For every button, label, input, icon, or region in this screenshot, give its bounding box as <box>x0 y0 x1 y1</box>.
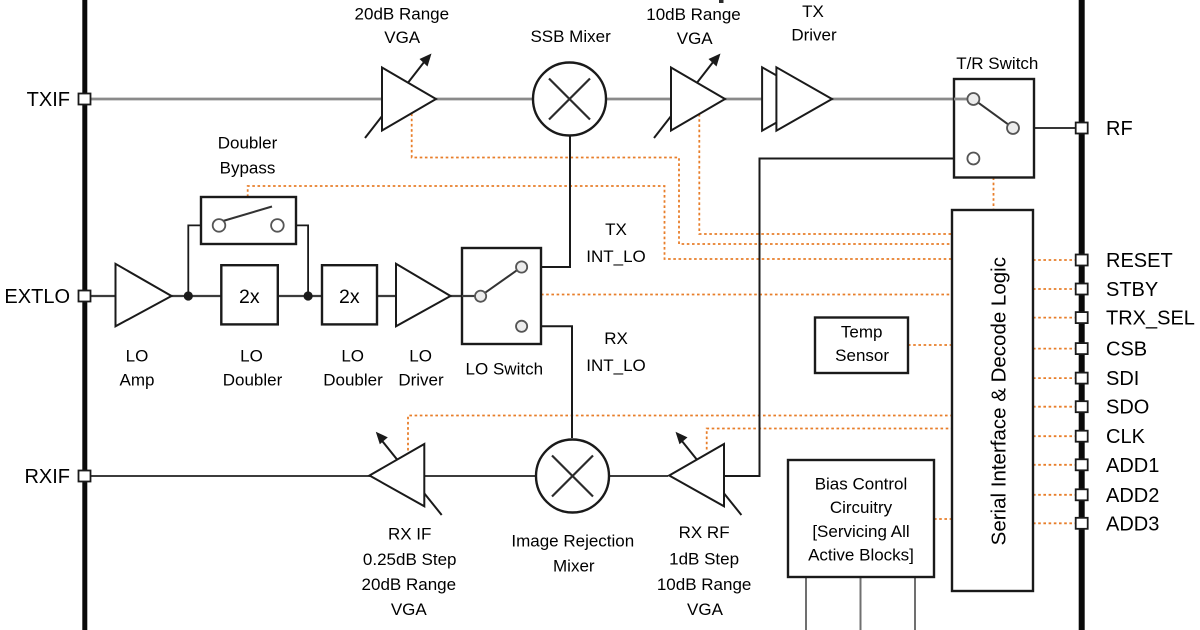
wire: TX INT_LO path <box>527 136 570 268</box>
wire: serial box to ADD2 pin <box>1033 494 1076 496</box>
svg-text:10dB Range: 10dB Range <box>646 5 741 24</box>
svg-text:VGA: VGA <box>391 600 428 619</box>
pin CLK <box>1076 431 1088 442</box>
wire: serial box to CLK pin <box>1033 435 1076 437</box>
wire: serial box to CSB pin <box>1033 348 1076 350</box>
svg-text:VGA: VGA <box>687 600 724 619</box>
svg-text:Bias Control: Bias Control <box>815 474 908 493</box>
amplifier TX 10dB Range VGA <box>654 54 725 139</box>
block LO Doubler 1 (2x) <box>221 265 277 324</box>
svg-text:SDI: SDI <box>1106 368 1139 390</box>
svg-text:INT_LO: INT_LO <box>586 356 646 375</box>
wire: bias supply line 3 <box>914 577 916 630</box>
pin SDI <box>1076 373 1088 384</box>
wire: 20dB VGA gain control <box>412 114 953 245</box>
amplifier RX RF VGA (points left) <box>669 432 741 515</box>
svg-text:SDO: SDO <box>1106 397 1149 419</box>
svg-text:LO: LO <box>341 347 364 366</box>
mixer Image Rejection Mixer <box>536 440 609 513</box>
wire: RX INT_LO path <box>527 326 572 438</box>
pin TRX_SEL <box>1076 312 1088 323</box>
wire: serial box to TRX_SEL pin <box>1033 317 1076 319</box>
wire: serial box to ADD1 pin <box>1033 464 1076 466</box>
svg-text:Image Rejection: Image Rejection <box>511 532 634 551</box>
wire: serial box to STBY pin <box>1033 288 1076 290</box>
svg-text:CLK: CLK <box>1106 426 1146 448</box>
svg-text:Doubler: Doubler <box>323 370 383 389</box>
svg-text:Temp: Temp <box>841 323 883 342</box>
block Serial Interface & Decode Logic <box>952 210 1033 591</box>
svg-text:CSB: CSB <box>1106 339 1147 361</box>
label partial glyph top <box>719 0 724 3</box>
svg-text:LO Switch: LO Switch <box>466 360 543 379</box>
pin SDO <box>1076 401 1088 412</box>
svg-text:TX: TX <box>605 220 627 239</box>
svg-text:RX RF: RX RF <box>679 523 730 542</box>
wire: doubler bypass left leg <box>188 225 212 296</box>
switch T/R Switch <box>954 79 1034 178</box>
svg-text:Driver: Driver <box>791 25 837 44</box>
orange control dashed lines <box>248 114 1076 524</box>
wire: RXIF signal path <box>87 475 536 477</box>
svg-text:RF: RF <box>1106 118 1133 140</box>
svg-text:Serial Interface & Decode Logi: Serial Interface & Decode Logic <box>988 257 1011 545</box>
block Temp Sensor <box>815 318 908 374</box>
svg-text:TX: TX <box>802 2 824 21</box>
amplifier TX 20dB Range VGA <box>365 54 436 139</box>
svg-text:ADD1: ADD1 <box>1106 455 1159 477</box>
svg-text:VGA: VGA <box>677 29 714 48</box>
pin ADD3 <box>1076 518 1088 529</box>
pin TXIF <box>79 94 91 105</box>
chip right border <box>1079 0 1085 630</box>
pin ADD2 <box>1076 489 1088 500</box>
svg-text:RXIF: RXIF <box>24 466 70 488</box>
svg-text:[Servicing All: [Servicing All <box>812 522 909 541</box>
svg-text:LO: LO <box>240 347 263 366</box>
svg-text:TRX_SEL: TRX_SEL <box>1106 308 1195 330</box>
amplifier LO Driver <box>396 264 451 327</box>
wire: 10dB VGA gain control <box>699 114 953 234</box>
svg-text:Bypass: Bypass <box>220 159 276 178</box>
svg-text:ADD2: ADD2 <box>1106 485 1159 507</box>
mixer SSB Mixer <box>533 63 606 136</box>
block Bias Control Circuitry <box>788 460 934 577</box>
svg-text:VGA: VGA <box>384 28 421 47</box>
svg-text:Circuitry: Circuitry <box>830 498 893 517</box>
svg-text:Sensor: Sensor <box>835 346 889 365</box>
svg-text:2x: 2x <box>239 286 260 308</box>
wire: doubler bypass control <box>248 186 953 259</box>
svg-text:TXIF: TXIF <box>27 89 70 111</box>
wire: LO switch control <box>541 294 953 296</box>
svg-text:RX IF: RX IF <box>388 525 431 544</box>
svg-text:Driver: Driver <box>398 370 444 389</box>
switch Doubler Bypass <box>201 197 296 244</box>
svg-text:2x: 2x <box>339 286 360 308</box>
svg-text:Mixer: Mixer <box>553 557 595 576</box>
svg-text:SSB Mixer: SSB Mixer <box>530 27 611 46</box>
svg-text:0.25dB Step: 0.25dB Step <box>363 550 457 569</box>
svg-text:EXTLO: EXTLO <box>4 286 70 308</box>
block LO Doubler 2 (2x) <box>322 265 377 324</box>
wire: serial box to ADD3 pin <box>1033 522 1076 524</box>
svg-text:INT_LO: INT_LO <box>586 247 646 266</box>
pin RF <box>1076 123 1088 134</box>
chip left border <box>82 0 87 630</box>
wire: TXIF signal path <box>87 98 533 101</box>
svg-text:20dB Range: 20dB Range <box>362 575 457 594</box>
svg-text:RESET: RESET <box>1106 250 1173 272</box>
svg-text:Doubler: Doubler <box>218 134 278 153</box>
pin RESET <box>1076 255 1088 266</box>
svg-text:1dB Step: 1dB Step <box>669 550 739 569</box>
wire: bias supply line 2 <box>860 577 862 630</box>
wire: RF output <box>1019 127 1079 129</box>
amplifier RX IF VGA (points left) <box>370 432 442 515</box>
svg-text:LO: LO <box>409 347 432 366</box>
node junction 1 <box>184 291 193 300</box>
wire: temp sensor link <box>908 344 953 346</box>
wire: bias control link <box>934 518 953 520</box>
wire: bias supply line 1 <box>805 577 807 630</box>
pin STBY <box>1076 284 1088 295</box>
node junction 2 <box>304 291 313 300</box>
wire: serial box to RESET pin <box>1033 259 1076 261</box>
switch LO Switch <box>462 248 541 344</box>
pin RXIF <box>79 471 91 482</box>
amplifier TX Driver (double triangle) <box>762 67 832 130</box>
wire: T/R switch RX return path <box>725 159 967 477</box>
svg-text:Active Blocks]: Active Blocks] <box>808 546 914 565</box>
amplifier LO Amp <box>116 264 172 327</box>
wire: serial box to SDI pin <box>1033 377 1076 379</box>
pin EXTLO <box>79 291 91 302</box>
svg-text:RX: RX <box>604 329 628 348</box>
svg-text:ADD3: ADD3 <box>1106 513 1159 535</box>
wire: RX IF VGA gain control <box>408 416 953 451</box>
wire: EXTLO signal path <box>87 295 475 297</box>
wire: RX RF VGA gain control <box>707 429 953 450</box>
pin ADD1 <box>1076 459 1088 470</box>
svg-text:Doubler: Doubler <box>223 370 283 389</box>
wire: serial box to SDO pin <box>1033 406 1076 408</box>
svg-text:STBY: STBY <box>1106 279 1158 301</box>
svg-text:Amp: Amp <box>120 370 155 389</box>
svg-text:20dB Range: 20dB Range <box>355 5 450 24</box>
wire: doubler bypass right leg <box>284 225 308 296</box>
svg-text:LO: LO <box>126 347 149 366</box>
svg-text:10dB Range: 10dB Range <box>657 575 752 594</box>
svg-text:T/R Switch: T/R Switch <box>956 54 1038 73</box>
pin CSB <box>1076 343 1088 354</box>
wire: T/R switch control <box>993 177 995 210</box>
